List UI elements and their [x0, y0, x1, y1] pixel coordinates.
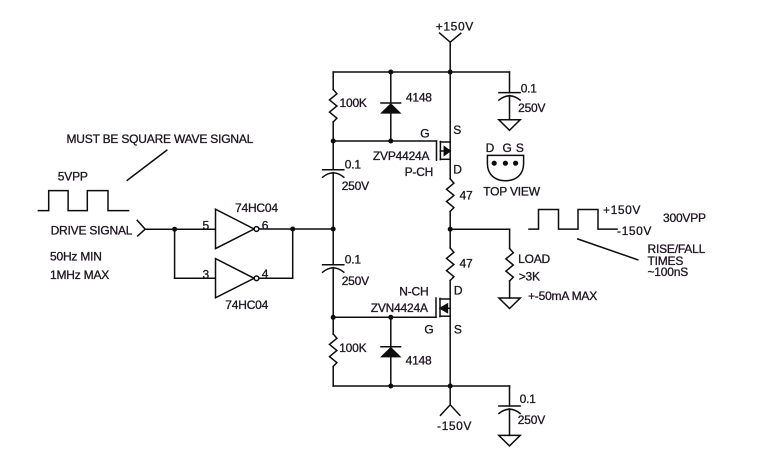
svg-text:0.1: 0.1 — [345, 253, 362, 267]
svg-text:G: G — [420, 126, 429, 140]
svg-text:D: D — [453, 162, 462, 176]
svg-text:250V: 250V — [518, 101, 545, 115]
svg-text:-150V: -150V — [437, 419, 472, 433]
svg-text:LOAD: LOAD — [518, 252, 550, 266]
svg-text:3: 3 — [203, 267, 210, 281]
svg-text:TOP VIEW: TOP VIEW — [483, 185, 541, 199]
svg-text:S: S — [454, 322, 462, 336]
svg-text:1MHz MAX: 1MHz MAX — [50, 268, 109, 282]
svg-text:0.1: 0.1 — [520, 392, 537, 406]
svg-text:D: D — [486, 141, 495, 155]
svg-text:0.1: 0.1 — [345, 158, 362, 172]
svg-text:100K: 100K — [339, 341, 366, 355]
svg-text:50Hz MIN: 50Hz MIN — [50, 250, 102, 264]
svg-text:5VPP: 5VPP — [58, 170, 88, 184]
svg-text:0.1: 0.1 — [521, 81, 538, 95]
svg-text:6: 6 — [262, 218, 269, 232]
svg-text:250V: 250V — [342, 274, 369, 288]
svg-text:-150V: -150V — [617, 224, 652, 238]
svg-text:ZVP4424A: ZVP4424A — [373, 149, 430, 163]
svg-text:300VPP: 300VPP — [663, 211, 706, 225]
svg-text:S: S — [516, 141, 524, 155]
svg-text:4148: 4148 — [406, 91, 432, 105]
svg-text:5: 5 — [203, 218, 210, 232]
svg-text:+-50mA MAX: +-50mA MAX — [528, 289, 597, 303]
svg-text:~100nS: ~100nS — [648, 265, 689, 279]
svg-text:74HC04: 74HC04 — [235, 201, 278, 215]
svg-text:+150V: +150V — [603, 203, 641, 217]
svg-text:74HC04: 74HC04 — [225, 298, 268, 312]
svg-text:ZVN4424A: ZVN4424A — [371, 301, 428, 315]
svg-text:>3K: >3K — [519, 270, 540, 284]
svg-text:100K: 100K — [340, 96, 367, 110]
svg-text:+150V: +150V — [436, 20, 474, 34]
svg-text:4148: 4148 — [406, 353, 432, 367]
svg-text:MUST BE SQUARE WAVE SIGNAL: MUST BE SQUARE WAVE SIGNAL — [67, 132, 254, 146]
svg-text:250V: 250V — [518, 413, 545, 427]
svg-text:DRIVE SIGNAL: DRIVE SIGNAL — [51, 224, 133, 238]
svg-text:47: 47 — [460, 257, 473, 271]
svg-text:G: G — [424, 322, 433, 336]
svg-text:47: 47 — [460, 188, 473, 202]
svg-text:S: S — [453, 123, 461, 137]
svg-text:D: D — [454, 283, 463, 297]
svg-text:P-CH: P-CH — [405, 165, 434, 179]
svg-text:4: 4 — [262, 267, 269, 281]
svg-text:N-CH: N-CH — [399, 285, 428, 299]
svg-text:250V: 250V — [342, 179, 369, 193]
svg-text:G: G — [503, 141, 512, 155]
